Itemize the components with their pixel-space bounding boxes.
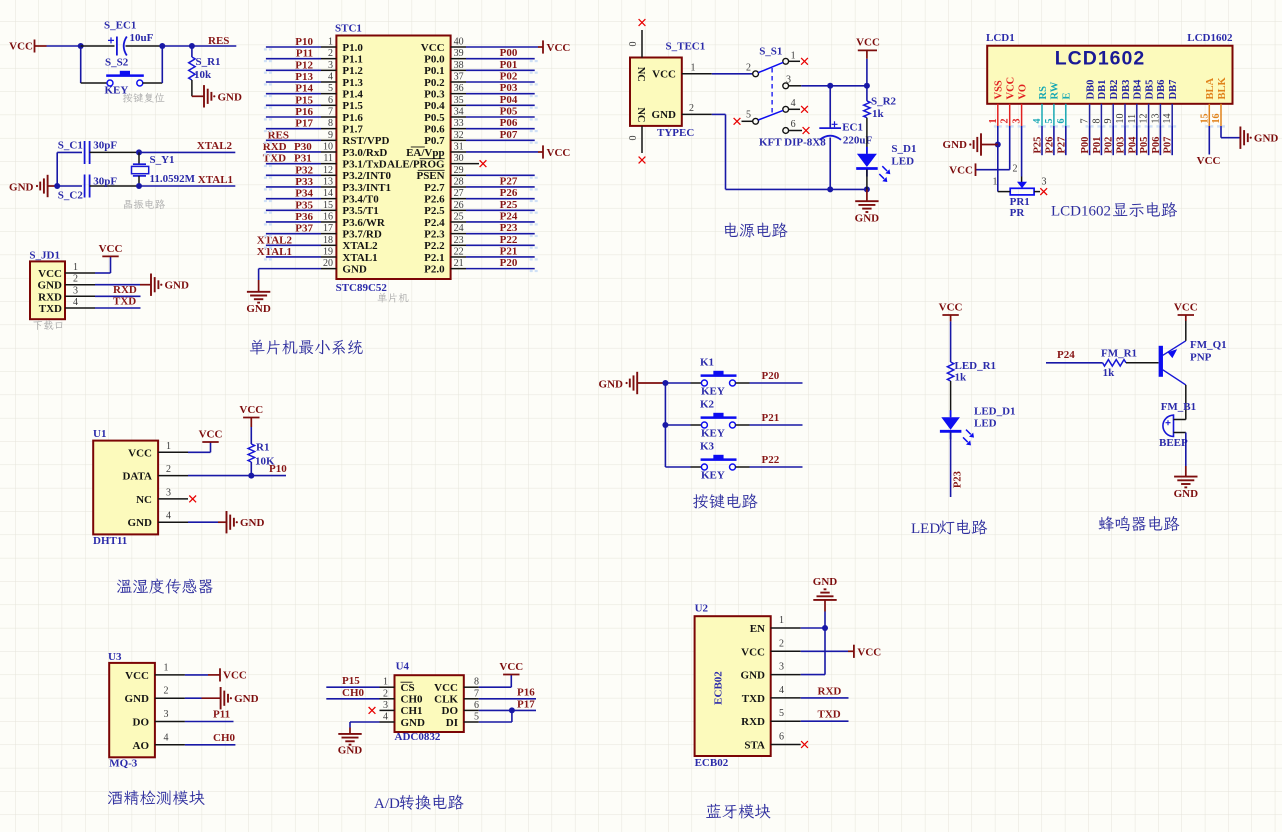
svg-text:P05: P05 [1139, 137, 1150, 154]
net label P13 (left) [295, 71, 313, 83]
svg-text:17: 17 [323, 223, 333, 234]
STC1 pin 35 P0.4 [424, 95, 535, 112]
svg-text:VSS: VSS [994, 80, 1005, 99]
net label P17 (left) [295, 118, 313, 130]
net label P04 (right) [500, 94, 518, 106]
svg-text:1: 1 [791, 51, 796, 62]
svg-text:XTAL1: XTAL1 [257, 246, 292, 258]
svg-text:P27: P27 [1056, 137, 1067, 154]
svg-text:19: 19 [323, 246, 333, 257]
svg-text:VCC: VCC [9, 41, 33, 53]
svg-text:CH1: CH1 [401, 705, 423, 717]
svg-text:VCC: VCC [939, 302, 963, 314]
svg-text:RST/VPD: RST/VPD [342, 135, 389, 147]
wire GND pin20 to ground [259, 269, 321, 292]
svg-text:VCC: VCC [99, 243, 123, 255]
svg-text:P1.3: P1.3 [342, 77, 363, 89]
svg-text:P34: P34 [295, 188, 313, 200]
svg-text:K1: K1 [700, 357, 714, 369]
ground (earth style) power [855, 201, 880, 224]
svg-text:U3: U3 [108, 651, 122, 663]
svg-text:CS: CS [401, 682, 415, 694]
svg-text:XTAL1: XTAL1 [342, 252, 377, 264]
svg-text:P17: P17 [295, 118, 313, 130]
svg-text:P27: P27 [500, 175, 518, 187]
STC1 pin 36 P0.3 [424, 83, 535, 100]
wire TXD + net label [95, 296, 141, 309]
svg-text:40: 40 [454, 37, 464, 48]
svg-text:RXD: RXD [741, 716, 765, 728]
svg-text:S_C2: S_C2 [58, 190, 84, 202]
svg-text:GND: GND [165, 280, 190, 292]
svg-text:4: 4 [166, 511, 171, 522]
svg-text:CH0: CH0 [342, 687, 365, 699]
connector S_JD1 body [29, 250, 65, 320]
svg-text:P1.5: P1.5 [342, 100, 363, 112]
svg-text:S_Y1: S_Y1 [150, 154, 175, 166]
svg-text:2: 2 [746, 63, 751, 74]
U4 pin 5 DI [446, 712, 479, 729]
svg-text:30pF: 30pF [93, 176, 117, 188]
svg-text:P3.4/T0: P3.4/T0 [342, 193, 379, 205]
wire + net label P21 [750, 412, 803, 425]
STC1 pin 39 P0.0 [424, 48, 535, 65]
net label P34 (left) [295, 188, 313, 200]
svg-text:12: 12 [1139, 114, 1150, 124]
wire pot pin1 [998, 191, 1010, 193]
svg-text:TXD: TXD [39, 303, 62, 315]
svg-text:2: 2 [166, 464, 171, 475]
svg-text:25: 25 [454, 211, 464, 222]
U2 pin 3 GND [741, 662, 801, 682]
svg-text:VCC: VCC [741, 646, 765, 658]
svg-text:R1: R1 [256, 442, 269, 454]
svg-text:ECB02: ECB02 [695, 757, 729, 769]
wire VCC to node A [47, 45, 81, 47]
STC1 pin 21 P2.0 [424, 258, 535, 275]
STC1 pin 15 P3.5/T1 [266, 200, 379, 217]
svg-text:PR: PR [1010, 207, 1026, 219]
wire + net label P06 (LCD) [1151, 126, 1162, 155]
svg-text:3: 3 [1042, 177, 1047, 188]
net label RES [208, 35, 229, 47]
svg-text:DB5: DB5 [1144, 80, 1155, 100]
svg-text:U2: U2 [695, 603, 709, 615]
svg-text:K3: K3 [700, 441, 715, 453]
svg-text:STC89C52: STC89C52 [336, 282, 388, 294]
svg-text:GND: GND [246, 303, 271, 315]
svg-text:VCC: VCC [199, 429, 223, 441]
svg-text:20: 20 [323, 258, 333, 269]
svg-text:S_R1: S_R1 [196, 56, 221, 68]
LCD1602 big label [1055, 48, 1145, 70]
svg-text:P21: P21 [500, 245, 518, 257]
switch S_S2 KEY [105, 57, 144, 97]
svg-text:S_S1: S_S1 [759, 46, 782, 58]
svg-text:E: E [1062, 92, 1073, 99]
svg-text:P25: P25 [1033, 137, 1044, 154]
svg-text:GND: GND [943, 139, 968, 151]
svg-text:ADC0832: ADC0832 [395, 731, 441, 743]
svg-text:CH0: CH0 [401, 694, 424, 706]
svg-text:P10: P10 [295, 36, 313, 48]
svg-text:10: 10 [323, 141, 333, 152]
ground (bar style) MQ-3 [221, 687, 259, 709]
power port VCC (DHT11) [199, 429, 223, 443]
LCD1 pin 5 RW [1044, 81, 1061, 126]
svg-text:P2.0: P2.0 [424, 263, 445, 275]
svg-text:XTAL2: XTAL2 [342, 240, 378, 252]
resistor S_R1 10k [189, 46, 221, 81]
U1 pin 3 NC [136, 487, 188, 506]
svg-text:P3.6/WR: P3.6/WR [342, 217, 386, 229]
svg-text:9: 9 [328, 130, 333, 141]
STC1 pin 24 P2.3 [424, 223, 535, 240]
STC1 pin 18 XTAL2 [266, 235, 378, 252]
svg-text:P00: P00 [500, 47, 518, 59]
svg-text:35: 35 [454, 95, 464, 106]
svg-text:P00: P00 [1080, 137, 1091, 154]
STC1 pin 13 P3.3/INT1 [266, 176, 391, 193]
wire + net label P26 (LCD) [1044, 126, 1055, 155]
wire VCC pin to VCC port [976, 126, 1010, 170]
key bus vertical [662, 380, 668, 467]
title LCD1602显示电路 [1051, 202, 1177, 220]
svg-text:220uF: 220uF [843, 135, 873, 147]
net label P21 (right) [500, 245, 518, 257]
svg-text:GND: GND [240, 517, 265, 529]
resistor LED_R1 1k [947, 321, 996, 383]
svg-text:FM_B1: FM_B1 [1161, 401, 1196, 413]
wire RES [192, 45, 236, 47]
buzzer FM_B1 BEEP [1159, 401, 1196, 449]
title 蓝牙模块 [706, 804, 770, 819]
S_S1 contact 2 [746, 63, 758, 77]
sensor U3 MQ-3 body [108, 651, 155, 770]
svg-text:P32: P32 [295, 164, 313, 176]
S_S1 contact 5 with X [734, 110, 759, 125]
svg-text:P06: P06 [500, 117, 518, 129]
svg-text:30: 30 [454, 153, 464, 164]
svg-text:STC1: STC1 [335, 23, 362, 35]
svg-text:1: 1 [691, 63, 696, 74]
svg-text:16: 16 [323, 211, 333, 222]
svg-text:VCC: VCC [949, 165, 973, 177]
STC1 pin 22 P2.1 [424, 246, 535, 263]
svg-text:RXD: RXD [38, 291, 62, 303]
svg-text:P0.2: P0.2 [424, 77, 445, 89]
wire pin1 to VCC [188, 442, 211, 452]
STC1 pin 5 P1.4 [266, 83, 363, 100]
svg-text:VCC: VCC [125, 670, 149, 682]
svg-text:P22: P22 [762, 454, 780, 466]
svg-text:STA: STA [744, 740, 765, 752]
svg-text:P0.1: P0.1 [424, 65, 444, 77]
svg-text:10: 10 [1115, 114, 1126, 124]
svg-text:EN: EN [750, 623, 765, 635]
pin3 CH1 no-connect X [369, 707, 376, 714]
S_TEC1 pin names [635, 67, 676, 123]
svg-text:GND: GND [234, 693, 259, 705]
STC1 pin 33 P0.6 [424, 118, 535, 135]
compile marks under LCD pins [994, 125, 1225, 127]
svg-text:P0.3: P0.3 [424, 88, 445, 100]
net label P22 (right) [500, 234, 518, 246]
no-connect X pin30 [480, 160, 487, 167]
compile marks at STC1 wire ends [264, 48, 538, 272]
svg-text:P12: P12 [295, 59, 313, 71]
svg-text:BEEP: BEEP [1159, 437, 1188, 449]
svg-text:32: 32 [454, 130, 464, 141]
wire pin1 to VCC [185, 674, 220, 676]
svg-text:S_D1: S_D1 [891, 143, 916, 155]
U4 pin 2 CH0 [380, 688, 424, 705]
svg-text:30pF: 30pF [93, 140, 117, 152]
STC1 pin 23 P2.2 [424, 235, 535, 252]
svg-text:P05: P05 [500, 105, 518, 117]
STC1 pin 20 GND [321, 258, 367, 275]
U2 pin 4 TXD [742, 685, 801, 705]
svg-text:KFT DIP-8X8: KFT DIP-8X8 [759, 137, 826, 149]
svg-text:11: 11 [1127, 114, 1138, 124]
svg-text:TXD: TXD [113, 296, 136, 308]
svg-text:P01: P01 [500, 59, 518, 71]
svg-text:KEY: KEY [701, 470, 725, 482]
wire DI joins DO [479, 710, 512, 722]
svg-text:1: 1 [164, 662, 169, 673]
svg-text:GND: GND [401, 717, 426, 729]
svg-text:TYPEC: TYPEC [657, 127, 694, 139]
switch K1 KEY [665, 357, 749, 398]
wire pin4 GND down [350, 722, 380, 734]
STC1 pin 28 P2.7 [424, 176, 535, 193]
diode LED_D1 LED [940, 381, 1016, 445]
wire + net label P27 (LCD) [1056, 126, 1067, 155]
svg-text:P1.4: P1.4 [342, 88, 363, 100]
wire DO + net label P11 [185, 709, 234, 722]
wire AO + net label CH0 [185, 732, 236, 745]
svg-text:PSEN: PSEN [416, 170, 444, 182]
wire CLK + net label P16 [479, 687, 536, 699]
power port VCC (power circuit) [856, 37, 880, 59]
svg-text:3: 3 [1012, 119, 1023, 124]
svg-text:7: 7 [474, 688, 479, 699]
U3 pin 3 DO [133, 709, 185, 729]
svg-text:7: 7 [328, 106, 333, 117]
title 单片机最小系统 [250, 339, 363, 354]
svg-text:RW: RW [1050, 81, 1061, 99]
ground (bar style) crystal [9, 175, 57, 197]
svg-text:2: 2 [779, 638, 784, 649]
svg-text:3: 3 [786, 75, 791, 86]
ground (bar style) keys [599, 372, 666, 394]
svg-text:VCC: VCC [434, 682, 458, 694]
svg-text:GND: GND [855, 213, 880, 225]
resistor S_R2 1k [864, 59, 897, 120]
svg-text:13: 13 [1150, 114, 1161, 124]
STC1 pin 2 P1.1 [266, 48, 363, 65]
svg-text:RS: RS [1038, 86, 1049, 100]
svg-text:NC: NC [635, 67, 646, 82]
LCD1 pin 15 BLA [1199, 77, 1216, 126]
svg-text:P1.0: P1.0 [342, 42, 363, 54]
svg-text:2: 2 [1000, 119, 1011, 124]
svg-text:8: 8 [328, 118, 333, 129]
svg-text:P14: P14 [295, 83, 313, 95]
svg-text:2: 2 [1013, 164, 1018, 175]
wire pin1 + net label P15 [326, 675, 379, 687]
STC1 pin 11 P3.1/TxD [266, 153, 387, 170]
STC1 pin 26 P2.5 [424, 200, 535, 217]
U2 pin 6 STA [744, 732, 800, 752]
svg-text:16: 16 [1211, 114, 1222, 124]
ground (bar style) DHT11 [227, 511, 265, 533]
svg-text:1: 1 [328, 37, 333, 48]
svg-text:P15: P15 [342, 675, 360, 687]
svg-text:1: 1 [993, 177, 998, 188]
svg-text:P3.2/INT0: P3.2/INT0 [342, 170, 391, 182]
svg-text:VCC: VCC [499, 661, 523, 673]
ground (bar style) LCD BLK [1240, 127, 1278, 149]
wire + net label P24 [1046, 349, 1103, 363]
STC1 pin 38 P0.1 [424, 60, 535, 77]
node B junction and wire up [143, 43, 166, 83]
svg-text:22: 22 [454, 246, 464, 257]
STC1 pin 14 P3.4/T0 [266, 188, 379, 205]
svg-text:P21: P21 [762, 412, 780, 424]
svg-text:GND: GND [125, 693, 150, 705]
net label XTAL2 (left) [257, 234, 293, 246]
svg-text:GND: GND [38, 280, 63, 292]
U3 pin 4 AO [133, 732, 185, 752]
STC1 pin 31 EA/Vpp [406, 141, 538, 158]
svg-text:BLA: BLA [1205, 77, 1216, 99]
wire VSS to GND [995, 126, 1001, 192]
svg-text:P2.1: P2.1 [424, 252, 444, 264]
svg-text:P20: P20 [500, 257, 518, 269]
svg-text:2: 2 [328, 48, 333, 59]
U2 pin 5 RXD [741, 708, 801, 728]
net label P24 (right) [500, 210, 518, 222]
svg-text:NC: NC [136, 494, 152, 506]
svg-text:DATA: DATA [122, 471, 152, 483]
svg-text:GND: GND [599, 379, 624, 391]
svg-text:P01: P01 [1092, 137, 1103, 154]
svg-text:3: 3 [166, 487, 171, 498]
ground (earth style) buzzer [1174, 477, 1199, 500]
svg-text:15: 15 [323, 200, 333, 211]
wire node B to RES node [162, 43, 195, 49]
STC1 pin 19 XTAL1 [266, 246, 378, 263]
svg-text:1k: 1k [1103, 367, 1116, 379]
overbar PROG [420, 158, 445, 160]
svg-text:P23: P23 [953, 471, 964, 488]
S_S1 dashed link [771, 68, 773, 115]
wire to base [1126, 362, 1159, 364]
net label XTAL1 (left) [257, 246, 292, 258]
U3 pin 2 GND [125, 686, 185, 706]
svg-text:P04: P04 [500, 94, 518, 106]
svg-text:FM_Q1: FM_Q1 [1190, 339, 1227, 351]
ADC U4 ADC0832 body [395, 661, 464, 744]
svg-text:VCC: VCC [223, 670, 247, 682]
LCD1 pin 10 DB3 [1115, 80, 1132, 126]
svg-text:P02: P02 [1104, 137, 1115, 154]
node crystal-left junction [54, 152, 60, 189]
svg-text:1: 1 [73, 262, 78, 273]
svg-text:6: 6 [474, 700, 479, 711]
svg-text:VCC: VCC [856, 37, 880, 49]
LCD1 pin 9 DB2 [1103, 80, 1120, 126]
pin3 NC no-connect X [189, 496, 196, 503]
svg-text:P3.5/T1: P3.5/T1 [342, 205, 378, 217]
svg-text:P22: P22 [500, 234, 518, 246]
net label P05 (right) [500, 105, 518, 117]
svg-text:P24: P24 [1057, 349, 1075, 361]
svg-text:GND: GND [813, 576, 838, 588]
title 蜂鸣器电路 [1099, 516, 1180, 531]
net label P07 (right) [500, 129, 518, 141]
LCD1 pin 6 E [1056, 92, 1073, 126]
svg-text:5: 5 [328, 83, 333, 94]
LCD1 pin 11 DB4 [1127, 79, 1144, 126]
wire + rotated net label P23 [951, 431, 964, 497]
wire collector down [1185, 385, 1187, 420]
connector S_TEC1 TYPEC body [630, 41, 705, 140]
svg-text:23: 23 [454, 235, 464, 246]
S_S1 arm 5-4 [758, 110, 783, 120]
svg-text:VCC: VCC [38, 268, 62, 280]
svg-text:3: 3 [383, 700, 388, 711]
power port VCC (ECB02) [854, 645, 881, 659]
net label P32 (left) [295, 164, 313, 176]
power port VCC (MQ-3) [220, 668, 247, 681]
svg-text:AO: AO [133, 740, 150, 752]
svg-text:VCC: VCC [1197, 155, 1221, 167]
S_S1 arm 2-1 [758, 62, 783, 72]
svg-text:5: 5 [746, 110, 751, 121]
overbar PSEN [418, 169, 445, 171]
STC1 pin 8 P1.7 [266, 118, 363, 135]
svg-text:8: 8 [1091, 119, 1102, 124]
capacitor S_C1 30pF [57, 140, 139, 165]
node XTAL1 junction [136, 183, 142, 189]
svg-text:4: 4 [328, 71, 333, 82]
wire + net label P03 (LCD) [1116, 126, 1127, 155]
svg-text:14: 14 [1162, 114, 1173, 124]
wire GND bus [801, 612, 828, 675]
wire + net label P00 (LCD) [1080, 126, 1091, 155]
S_JD1 pin 1 VCC [38, 262, 95, 280]
gray caption 按键复位 [123, 93, 165, 103]
svg-text:DO: DO [133, 717, 150, 729]
svg-text:CH0: CH0 [213, 732, 236, 744]
svg-text:P17: P17 [517, 699, 535, 711]
svg-text:10K: 10K [255, 456, 275, 468]
svg-text:ALE/PROG: ALE/PROG [387, 158, 445, 170]
svg-text:EC1: EC1 [842, 122, 863, 134]
svg-text:P24: P24 [500, 210, 518, 222]
LCD1 pin 4 RS [1032, 86, 1049, 126]
svg-text:2: 2 [73, 274, 78, 285]
title A/D转换电路 [374, 794, 464, 812]
STC1 pin 27 P2.6 [424, 188, 535, 205]
LCD1 pin 3 VO [1012, 84, 1029, 126]
svg-text:1k: 1k [955, 372, 968, 384]
svg-text:P06: P06 [1151, 137, 1162, 154]
svg-text:P3.7/RD: P3.7/RD [342, 228, 381, 240]
wire contact3 to VCC rail [801, 83, 870, 89]
